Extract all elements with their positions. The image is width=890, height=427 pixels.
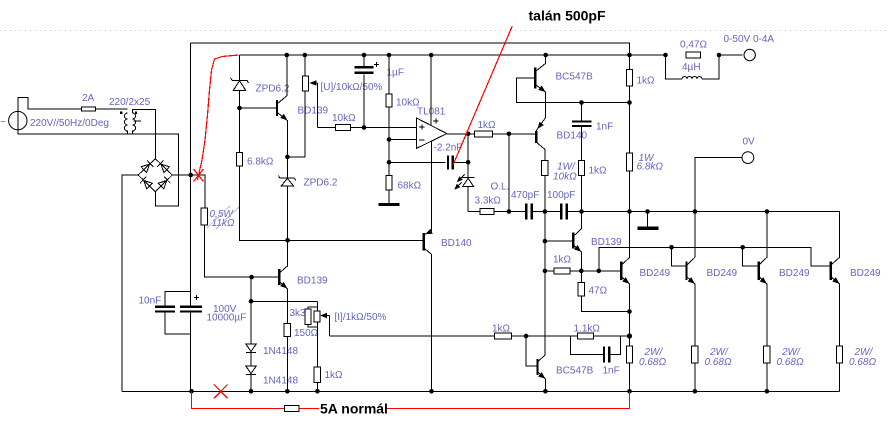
svg-text:BD249: BD249 — [779, 268, 810, 279]
resistor R14 3k3 — [305, 301, 317, 367]
wire 0V to mid rail — [695, 158, 742, 212]
svg-text:~: ~ — [0, 117, 6, 128]
transistor Q6 BC547B bottom — [526, 336, 547, 391]
wire top rail y55 — [240, 54, 743, 56]
resistor R23 0.68 ohm — [836, 346, 842, 391]
svg-text:ZPD6.2: ZPD6.2 — [256, 84, 290, 95]
svg-text:150Ω: 150Ω — [294, 328, 319, 339]
transistor Q8 BD249 — [621, 212, 631, 347]
svg-text:BD140: BD140 — [557, 131, 588, 142]
wire Q7 base — [545, 240, 573, 242]
node Q7 base junction — [543, 239, 548, 244]
svg-text:1kΩ: 1kΩ — [553, 255, 572, 266]
svg-text:0.68Ω: 0.68Ω — [639, 357, 666, 368]
transistor Q3 BD140 — [535, 117, 545, 211]
svg-text:2A: 2A — [82, 93, 95, 104]
svg-text:1kΩ: 1kΩ — [637, 76, 656, 87]
zener ZD2 ZPD6.2 on emitter column — [286, 157, 288, 240]
transistor Q5 BD139 lower left — [279, 240, 289, 301]
op-amp U1 TL081 — [417, 118, 447, 148]
node collector junction BD139 lower — [285, 238, 290, 243]
svg-text:BD249: BD249 — [707, 268, 738, 279]
LED D5 O.L. — [453, 162, 475, 211]
wire base drive line — [599, 247, 831, 271]
svg-text:0-50V 0-4A: 0-50V 0-4A — [724, 34, 775, 45]
wire R6 junction down — [508, 134, 510, 212]
wire op-amp V+ — [430, 55, 432, 125]
svg-text:3k3: 3k3 — [290, 308, 307, 319]
wire current-set line to BC547 — [329, 335, 629, 337]
resistor R11 1W 6.8k — [626, 153, 632, 171]
bridge diode D1 — [141, 160, 154, 173]
resistor R16 1k current — [495, 333, 512, 339]
svg-text:BD139: BD139 — [297, 276, 328, 287]
svg-text:6.8kΩ: 6.8kΩ — [637, 162, 664, 173]
svg-text:47Ω: 47Ω — [589, 286, 608, 297]
svg-text:100pF: 100pF — [547, 190, 575, 201]
svg-text:0,47Ω: 0,47Ω — [680, 40, 707, 51]
diode D7 1N4148 — [246, 366, 256, 391]
node 1k left junction — [543, 269, 548, 274]
svg-text:BD140: BD140 — [441, 238, 472, 249]
wire secondary top to bridge — [133, 109, 156, 158]
terminal J1 0-50V — [744, 49, 755, 60]
red X mark 1 — [194, 169, 204, 182]
svg-text:BC547B: BC547B — [556, 72, 594, 83]
node emitter junction — [579, 269, 584, 274]
svg-text:0V: 0V — [743, 137, 756, 148]
wire right column x629.5 — [629, 55, 631, 212]
node bottom rail dots — [189, 389, 194, 394]
svg-text:220/2x25: 220/2x25 — [109, 97, 151, 108]
capacitor C1 10000uF plates — [180, 295, 202, 311]
svg-text:68kΩ: 68kΩ — [398, 181, 422, 192]
transistor Q10 BD249 — [759, 212, 769, 347]
transformer center tap stub — [134, 120, 142, 122]
svg-text:1.1kΩ: 1.1kΩ — [574, 324, 601, 335]
svg-text:BD139: BD139 — [591, 237, 622, 248]
resistor R19 47 ohm — [578, 271, 629, 312]
node inverting junction — [387, 137, 392, 142]
wire AC top to fuse — [18, 98, 128, 112]
node zener-base junction — [237, 106, 242, 111]
wire AC bottom — [18, 130, 179, 206]
diode D6 1N4148 — [246, 277, 256, 366]
ground G2 — [637, 212, 658, 230]
node R6 right junction — [507, 132, 512, 137]
node feedback junction — [387, 160, 392, 165]
potentiometer P1 [U]/10k/50% — [302, 55, 317, 128]
svg-text:[U]/10kΩ/50%: [U]/10kΩ/50% — [321, 82, 383, 93]
inductor L1 4uH — [666, 55, 720, 79]
node base loop 1nF junction — [579, 100, 584, 105]
svg-text:10kΩ: 10kΩ — [553, 172, 577, 183]
zener ZD1 symbol — [231, 78, 249, 91]
svg-text:0.68Ω: 0.68Ω — [849, 357, 876, 368]
resistor R8 1W 10k — [542, 161, 548, 176]
wire Q2 base loop — [517, 78, 630, 103]
transistor Q11 BD249 — [831, 257, 842, 346]
transformer T1 primary — [125, 113, 128, 134]
node Q1 emitter junction — [285, 155, 290, 160]
bridge diode D4 — [158, 177, 171, 190]
svg-text:470pF: 470pF — [511, 190, 539, 201]
svg-text:1nF: 1nF — [603, 366, 620, 377]
transistor Q2 BC547B top — [535, 55, 547, 117]
wire feedback to cap — [389, 161, 446, 163]
zener ZD1 ZPD6.2 column — [240, 55, 424, 240]
resistor R3 10k horizontal — [336, 125, 351, 131]
wire op-amp V- down to BD140 — [431, 141, 433, 231]
resistor R17 1.1k — [578, 333, 594, 339]
red X mark 2 — [214, 385, 228, 399]
transformer polarity dots — [120, 112, 122, 114]
resistor R1 0.5W 11k column — [204, 225, 279, 277]
ground G1 — [379, 203, 400, 206]
wire noninverting input — [318, 127, 417, 129]
resistor R15 1k bottom — [314, 367, 320, 391]
svg-text:1nF: 1nF — [596, 122, 613, 133]
transformer T1 secondary — [133, 113, 136, 134]
node base junction dot — [249, 275, 254, 280]
svg-text:5A normál: 5A normál — [320, 401, 388, 417]
resistor R2 6.8k — [236, 152, 242, 166]
resistor R4 10k vertical column — [388, 55, 390, 203]
red bypass wire bottom — [192, 391, 630, 408]
node bridge plus junction — [188, 173, 193, 178]
fuse F1 2A — [82, 107, 96, 111]
capacitor C8 1nF bottom — [571, 336, 621, 363]
svg-text:10nF: 10nF — [139, 296, 162, 307]
wire emitter row — [251, 300, 317, 302]
svg-text:BD249: BD249 — [640, 268, 671, 279]
svg-text:3.3kΩ: 3.3kΩ — [475, 196, 502, 207]
svg-text:1kΩ: 1kΩ — [478, 120, 497, 131]
node R16 right junction — [524, 334, 529, 339]
svg-text:O.L.: O.L. — [491, 182, 510, 193]
node emitter row junction — [249, 299, 254, 304]
resistor R22 0.68 ohm — [764, 346, 770, 391]
resistor R7 3.3k — [480, 208, 494, 214]
wire x545 column — [544, 212, 546, 355]
wire drive tap 2 — [672, 247, 687, 265]
resistor R21 0.68 ohm — [692, 346, 698, 391]
resistor R18 1k driver — [545, 268, 621, 274]
red mod wire top — [198, 55, 239, 180]
svg-text:talán 500pF: talán 500pF — [529, 8, 606, 24]
node 47ohm junction — [627, 309, 632, 314]
svg-text:1kΩ: 1kΩ — [589, 166, 608, 177]
wire drive tap 3 — [743, 247, 759, 265]
node mid rail dots — [507, 209, 512, 214]
terminal J2 0V — [742, 152, 754, 164]
svg-text:6.8kΩ: 6.8kΩ — [247, 157, 274, 168]
svg-text:1N4148: 1N4148 — [263, 346, 298, 357]
node current line right junction — [627, 333, 632, 338]
node cap right junction — [466, 160, 471, 165]
svg-text:11kΩ: 11kΩ — [212, 218, 235, 229]
capacitor C2 10nF — [155, 291, 191, 334]
resistor R9 1k — [578, 161, 584, 176]
transistor Q1 BD139 — [277, 55, 289, 157]
wire top frame — [191, 43, 630, 55]
svg-text:1kΩ: 1kΩ — [325, 370, 344, 381]
node base loop right junction — [627, 100, 632, 105]
svg-text:1kΩ: 1kΩ — [492, 324, 511, 335]
svg-text:220V//50Hz/0Deg: 220V//50Hz/0Deg — [30, 118, 109, 129]
capacitor C5 470pF — [526, 204, 531, 220]
node drive tap 3 — [740, 245, 745, 250]
wire pot U bottom leg — [287, 91, 304, 157]
wire mid rail y211.5 — [468, 212, 839, 258]
grid dotted line — [0, 30, 890, 32]
resistor R12 0.47 ohm — [663, 52, 721, 58]
wire bridge plus output — [172, 175, 205, 208]
svg-text:[I]/1kΩ/50%: [I]/1kΩ/50% — [335, 312, 387, 323]
svg-text:10kΩ: 10kΩ — [332, 113, 356, 124]
svg-text:ZPD6.2: ZPD6.2 — [304, 178, 338, 189]
transistor Q7 BD139 driver — [573, 212, 583, 271]
wire op-amp output — [447, 133, 536, 135]
svg-text:BD139: BD139 — [298, 106, 329, 117]
wire inverting input — [389, 139, 417, 141]
svg-text:BD249: BD249 — [850, 268, 881, 279]
wire bridge minus to bottom rail — [122, 175, 138, 391]
capacitor C3 1uF — [355, 55, 380, 128]
red pointer line — [453, 26, 512, 164]
bridge diode D2 — [157, 160, 170, 173]
resistor R20 0.68 ohm — [626, 346, 632, 391]
svg-text:0.68Ω: 0.68Ω — [777, 357, 804, 368]
wire base tap Q1 — [240, 107, 278, 109]
bridge rectifier diamond — [138, 159, 172, 192]
node riser junction — [597, 269, 602, 274]
capacitor C6 100pF — [561, 204, 566, 220]
node 1uF bottom junction — [362, 125, 367, 130]
transistor Q4 BD140 left — [424, 229, 433, 392]
fuse F2 5A on red wire — [285, 406, 299, 412]
svg-text:1N4148: 1N4148 — [263, 376, 298, 387]
capacitor C4 2.2nF — [448, 156, 468, 170]
capacitor C7 1nF — [572, 103, 592, 161]
transistor Q9 BD249 — [687, 212, 697, 347]
node output junction — [466, 132, 471, 137]
wire left column x191 — [190, 43, 192, 391]
wire bottom rail — [122, 390, 840, 392]
potentiometer P2 [I]/1k/50% — [314, 311, 329, 336]
svg-text:10000µF: 10000µF — [207, 313, 247, 324]
svg-text:BC547B: BC547B — [556, 366, 594, 377]
svg-text:0.68Ω: 0.68Ω — [705, 357, 732, 368]
resistor R6 1k output — [474, 131, 492, 137]
resistor R10 1k top right — [626, 70, 632, 87]
node drive tap 2 — [669, 245, 674, 250]
wire output to feedback — [467, 134, 469, 163]
node rail dots y55 — [285, 53, 290, 58]
bridge diode D3 — [140, 177, 153, 190]
resistor R13 150 ohm — [284, 301, 290, 391]
svg-text:4µH: 4µH — [682, 62, 701, 73]
resistor R5 68k — [386, 175, 392, 190]
AC source V1 220V/50Hz/0Deg — [0, 111, 27, 130]
